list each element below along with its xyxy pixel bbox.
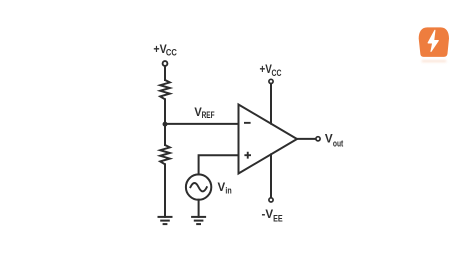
resistor R2 <box>160 145 170 164</box>
svg-text:out: out <box>333 138 343 148</box>
label Vout <box>325 131 343 148</box>
ground left <box>158 217 173 224</box>
ground under Vin <box>191 217 206 224</box>
svg-text:CC: CC <box>166 48 177 58</box>
node A junction dot <box>163 122 168 127</box>
label +VCC left <box>153 42 177 57</box>
svg-text:V: V <box>218 180 226 194</box>
output terminal Vout <box>316 137 320 141</box>
wire from +VCC terminal to R1 <box>164 66 166 80</box>
sine wave in Vin <box>190 183 206 191</box>
label Vin <box>218 180 232 195</box>
label +VCC op-amp <box>260 62 282 78</box>
wire from R1 to node <box>164 99 166 124</box>
svg-text:-V: -V <box>262 207 274 221</box>
label VREF <box>194 105 215 120</box>
op-amp +VCC power wire <box>270 84 272 124</box>
svg-text:CC: CC <box>272 68 282 78</box>
wire VREF node to op-amp inverting input <box>165 123 239 125</box>
output wire <box>297 138 315 140</box>
power terminal +VCC left <box>163 61 168 66</box>
CircuitBread logo shadow <box>422 60 447 62</box>
svg-text:+V: +V <box>153 42 166 56</box>
svg-text:EE: EE <box>273 214 283 224</box>
svg-text:+V: +V <box>260 62 272 76</box>
logo lightning bolt <box>428 30 438 51</box>
svg-text:in: in <box>225 186 231 196</box>
op-amp plus pin mark <box>244 152 251 159</box>
CircuitBread logo toast <box>419 27 449 57</box>
op-amp -VEE power wire <box>270 154 272 197</box>
wire from R2 to ground <box>164 164 166 217</box>
svg-text:REF: REF <box>202 110 215 120</box>
source Vin AC <box>186 174 211 199</box>
op-amp minus pin mark <box>244 122 251 124</box>
wire from node to R2 <box>164 124 166 145</box>
power terminal -VEE <box>269 198 273 202</box>
svg-text:V: V <box>325 131 333 145</box>
op-amp U1 <box>239 105 298 174</box>
power terminal +VCC op-amp <box>269 79 273 83</box>
resistor R1 <box>160 80 170 99</box>
wire Vin to op-amp non-inverting input <box>199 155 239 174</box>
label -VEE <box>262 207 283 223</box>
wire Vin to ground <box>198 200 200 217</box>
